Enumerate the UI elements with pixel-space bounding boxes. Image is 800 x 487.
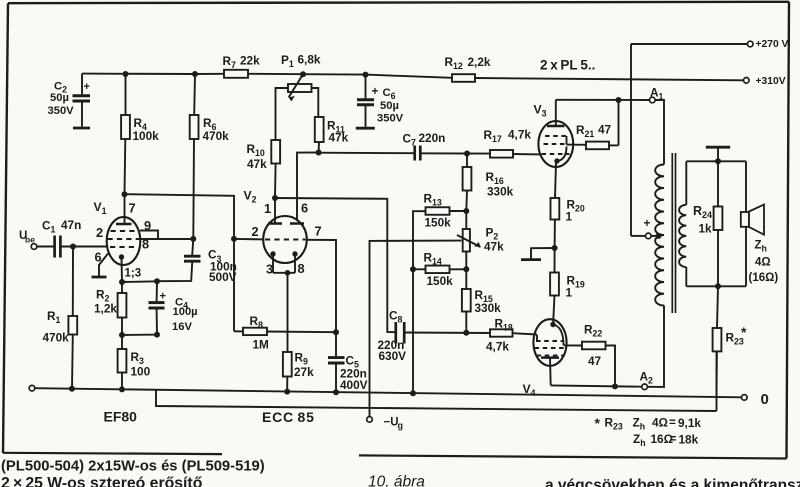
svg-text:+310V: +310V xyxy=(756,76,786,87)
svg-text:2: 2 xyxy=(252,224,259,239)
svg-text:=: = xyxy=(669,415,676,429)
svg-text:0: 0 xyxy=(761,391,769,408)
wire V1 pin9 xyxy=(140,231,158,240)
svg-text:*: * xyxy=(595,415,601,431)
terminal ground left xyxy=(29,385,35,391)
caption line1 xyxy=(1,459,265,475)
ground (R20/R19) xyxy=(521,248,555,260)
svg-text:330k: 330k xyxy=(487,185,514,199)
svg-text:+: + xyxy=(644,216,651,230)
speaker xyxy=(741,161,764,286)
junction V2 grid node xyxy=(231,236,237,242)
svg-text:8: 8 xyxy=(298,261,305,276)
ground (secondary) xyxy=(706,147,730,161)
resistor R20 xyxy=(551,198,560,248)
V4 grid1 jog xyxy=(536,335,538,341)
resistor R24 xyxy=(714,161,723,286)
wire divider column xyxy=(413,211,426,393)
caption line2 xyxy=(1,475,203,487)
ground rail junctions xyxy=(69,386,416,397)
label R1 xyxy=(43,309,70,345)
svg-text:(16Ω): (16Ω) xyxy=(749,272,779,284)
label V4 xyxy=(523,382,536,398)
svg-text:g: g xyxy=(398,421,404,431)
label R14 xyxy=(424,251,454,289)
label 2xPL5.. xyxy=(540,58,595,73)
svg-text:7: 7 xyxy=(315,224,322,239)
label C5 values xyxy=(340,354,368,393)
label R17 xyxy=(484,128,532,145)
label R11 xyxy=(327,119,349,145)
wire -Ug xyxy=(370,241,462,417)
label C1 47n xyxy=(42,218,81,235)
label R20 xyxy=(566,198,585,224)
capacitor C7 xyxy=(415,146,467,161)
resistor R7 xyxy=(224,70,248,78)
label R9 xyxy=(294,351,314,380)
junction pin7-R8-C5 xyxy=(333,329,339,335)
wire V2 grid xyxy=(234,238,263,241)
capacitor C6 xyxy=(357,72,379,127)
wire V3 anode to A1 xyxy=(556,97,650,103)
V3 screen jog xyxy=(566,136,568,145)
svg-text:47k: 47k xyxy=(247,157,267,171)
wire secondary bottom xyxy=(686,283,746,289)
svg-text:2,2k: 2,2k xyxy=(468,55,491,69)
svg-text:1;3: 1;3 xyxy=(125,268,142,280)
resistor R2 xyxy=(118,282,127,335)
label R21 xyxy=(576,123,612,140)
terminal A1 xyxy=(650,86,664,103)
svg-text:47k: 47k xyxy=(484,240,504,254)
transformer primary + tap xyxy=(631,216,662,239)
svg-text:100: 100 xyxy=(131,365,151,379)
wire cathode node xyxy=(119,278,160,285)
svg-text:4Ω: 4Ω xyxy=(652,416,668,430)
label R3 xyxy=(131,350,151,379)
svg-text:630V: 630V xyxy=(379,349,407,363)
wire to C7 xyxy=(319,152,415,155)
tube V2 envelope xyxy=(263,216,307,263)
resistor R10 xyxy=(271,140,280,198)
label R24 xyxy=(693,204,712,236)
label C4 values xyxy=(172,297,198,334)
ground (V1 pin6) xyxy=(92,276,107,279)
note R23 line1 xyxy=(595,415,702,432)
wire V1 pin8 screen xyxy=(140,238,193,240)
wire to V2 anode pin6 xyxy=(297,153,319,222)
junction screen node xyxy=(190,236,196,242)
svg-text:EF80: EF80 xyxy=(104,409,138,425)
potentiometer P1 xyxy=(276,71,319,140)
V3 anode xyxy=(547,100,565,126)
V3 grids xyxy=(542,136,570,154)
wire A2 to transformer xyxy=(647,306,664,387)
svg-text:2: 2 xyxy=(96,225,103,240)
label R18 xyxy=(486,317,513,354)
V4 anode xyxy=(541,358,559,386)
caption right text xyxy=(545,477,800,487)
wire V4 anode to A2 xyxy=(551,383,642,389)
resistor R16 xyxy=(463,154,472,212)
resistor R15 xyxy=(462,269,471,335)
junction R11-C7 xyxy=(316,150,322,156)
V1 pin labels xyxy=(95,201,152,280)
svg-text:150k: 150k xyxy=(425,216,452,230)
svg-text:350V: 350V xyxy=(377,112,404,124)
svg-text:7: 7 xyxy=(129,201,136,216)
tube V3 envelope xyxy=(538,121,573,167)
label Zh speaker xyxy=(749,240,779,285)
svg-text:1k: 1k xyxy=(699,222,713,236)
V1 anode xyxy=(116,194,132,224)
svg-text:4Ω: 4Ω xyxy=(755,257,771,269)
junction R13-R16-P2 xyxy=(463,208,469,214)
junction R2-R3-C4 xyxy=(119,332,125,338)
svg-text:150k: 150k xyxy=(427,274,454,288)
transformer primary winding xyxy=(655,165,664,310)
terminal Ube input xyxy=(19,230,37,249)
label R7 xyxy=(223,54,261,71)
svg-text:27k: 27k xyxy=(294,365,314,379)
V4 cathode xyxy=(550,322,563,346)
terminal +270V xyxy=(747,39,788,50)
label ECC85 xyxy=(262,409,315,425)
resistor R11 xyxy=(315,117,324,152)
wire ground rail xyxy=(35,388,742,397)
svg-text:1: 1 xyxy=(566,210,573,224)
V2 cathodes xyxy=(270,251,297,352)
label C6 values xyxy=(377,87,404,125)
svg-text:(PL500-504) 2x15W-os és (PL509: (PL500-504) 2x15W-os és (PL509-519) xyxy=(1,459,265,475)
label V1 xyxy=(94,200,107,216)
label R22 xyxy=(584,323,602,369)
resistor R3 xyxy=(118,335,127,389)
svg-text:47n: 47n xyxy=(61,218,81,232)
resistor R1 xyxy=(68,247,77,389)
label R13 xyxy=(424,192,452,230)
wire +270V xyxy=(631,44,748,236)
label P1 xyxy=(281,53,321,70)
capacitor C8 xyxy=(396,322,490,344)
svg-text:50µ: 50µ xyxy=(380,100,399,112)
capacitor C5 xyxy=(328,332,345,392)
wire V1 anode to V2 grid xyxy=(122,191,235,331)
svg-text:6: 6 xyxy=(95,250,102,265)
svg-text:500V: 500V xyxy=(209,270,237,284)
svg-text:400V: 400V xyxy=(340,378,368,392)
tube V1 envelope xyxy=(107,217,141,265)
wire +310V HT rail xyxy=(82,74,744,81)
label R2 xyxy=(94,288,117,316)
capacitor C1 xyxy=(37,236,107,258)
label EF80 xyxy=(104,409,138,425)
terminal A2 xyxy=(640,370,654,390)
svg-text:1: 1 xyxy=(264,201,271,216)
label C3 values xyxy=(208,248,237,284)
svg-text:2 × 25 W-os sztereó erősítő: 2 × 25 W-os sztereó erősítő xyxy=(1,475,203,487)
resistor R13 xyxy=(426,207,467,215)
svg-text:330k: 330k xyxy=(475,301,502,315)
terminal +310V xyxy=(744,76,786,87)
V2 anode1 xyxy=(268,198,282,224)
label R16 xyxy=(486,170,514,199)
svg-text:4,7k: 4,7k xyxy=(508,128,531,142)
svg-text:100µ: 100µ xyxy=(173,306,198,318)
label R12 xyxy=(445,55,491,71)
svg-text:10. ábra: 10. ábra xyxy=(368,474,425,487)
junction R20-R19-gnd xyxy=(552,245,558,251)
junction input node xyxy=(70,244,76,250)
label P2 xyxy=(484,226,504,254)
resistor R9 xyxy=(283,352,292,392)
svg-text:6,8k: 6,8k xyxy=(298,53,321,67)
label V2 xyxy=(244,189,257,205)
label R8 xyxy=(250,314,270,352)
junction C7-R16-R17 xyxy=(464,151,470,157)
svg-text:+: + xyxy=(84,81,90,93)
svg-text:16V: 16V xyxy=(172,321,192,333)
svg-text:1,2k: 1,2k xyxy=(94,302,117,316)
svg-text:+: + xyxy=(160,291,166,303)
label R6 xyxy=(203,116,230,143)
tube V4 envelope xyxy=(533,319,566,366)
resistor R18 xyxy=(490,329,537,336)
resistor R8 xyxy=(234,328,336,335)
V1 pin6 ground lead xyxy=(99,254,108,277)
svg-text:+270 V: +270 V xyxy=(756,39,789,50)
terminal 0 xyxy=(742,391,769,408)
wire 0V return rail xyxy=(156,351,717,411)
svg-text:22k: 22k xyxy=(240,54,260,68)
resistor R6 xyxy=(190,71,199,239)
V2 pin labels xyxy=(252,201,322,277)
svg-text:a végcsövekben és a kimenőtran: a végcsövekben és a kimenőtranszfor xyxy=(545,477,800,487)
junction V2 anode1 xyxy=(272,195,278,201)
note R23 line2 xyxy=(633,432,699,449)
V4 grids xyxy=(535,341,566,356)
svg-text:50µ: 50µ xyxy=(50,92,69,104)
caption 10. abra xyxy=(368,474,425,487)
svg-text:350V: 350V xyxy=(48,105,75,117)
label R10 xyxy=(247,142,268,171)
ground (C2) xyxy=(73,127,90,130)
V2 anode2 xyxy=(290,222,304,225)
wire V2 pin7 grid2 xyxy=(307,240,336,332)
svg-text:+: + xyxy=(372,84,379,98)
transformer secondary winding xyxy=(679,161,686,286)
svg-text:470k: 470k xyxy=(43,331,70,345)
svg-text:−U: −U xyxy=(384,417,399,429)
wire A1 to transformer xyxy=(655,100,664,165)
resistor R21 xyxy=(567,100,619,149)
label C2 values xyxy=(48,81,75,118)
label C7 220n xyxy=(403,131,446,148)
svg-text:47: 47 xyxy=(598,123,612,137)
svg-text:1: 1 xyxy=(566,286,573,300)
svg-text:=: = xyxy=(670,432,677,446)
wire V2 anode1 to C8 xyxy=(275,198,395,332)
terminal -Ug xyxy=(367,417,403,431)
wire secondary top xyxy=(686,158,746,164)
V1 grids xyxy=(108,231,140,247)
svg-text:be: be xyxy=(25,235,35,245)
label V3 xyxy=(534,103,547,119)
resistor R14 xyxy=(410,266,469,274)
svg-text:100k: 100k xyxy=(133,129,160,143)
svg-text:2 x PL 5..: 2 x PL 5.. xyxy=(540,58,595,73)
svg-text:47: 47 xyxy=(588,354,602,368)
capacitor C2 xyxy=(73,74,91,127)
transformer core xyxy=(672,153,675,313)
resistor R23 xyxy=(713,286,722,397)
svg-text:1M: 1M xyxy=(253,338,270,352)
label R19 xyxy=(566,274,585,300)
V2 grid (dashed) xyxy=(265,239,306,241)
resistor R22 xyxy=(564,342,615,387)
label C8 values xyxy=(378,309,407,364)
resistor R12 xyxy=(452,74,475,82)
svg-text:9,1k: 9,1k xyxy=(678,416,701,430)
svg-text:47k: 47k xyxy=(329,130,349,144)
label R23 xyxy=(726,324,748,347)
svg-text:18k: 18k xyxy=(679,433,699,447)
capacitor C4 xyxy=(122,281,166,337)
label R4 xyxy=(133,116,160,143)
V1 cathode xyxy=(119,254,124,282)
resistor R17 xyxy=(467,150,541,158)
svg-text:ECC 85: ECC 85 xyxy=(262,409,315,425)
resistor R19 xyxy=(550,248,559,324)
V3 cathode xyxy=(554,147,566,199)
svg-text:470k: 470k xyxy=(203,129,230,143)
svg-text:4,7k: 4,7k xyxy=(486,340,509,354)
svg-text:6: 6 xyxy=(301,201,308,216)
label R15 xyxy=(475,288,502,315)
capacitor C3 xyxy=(157,239,201,281)
svg-text:220n: 220n xyxy=(419,131,446,145)
svg-text:*: * xyxy=(741,324,747,340)
ground (C6) xyxy=(356,127,375,130)
potentiometer P2 xyxy=(457,211,481,269)
svg-text:3: 3 xyxy=(266,262,273,277)
resistor R4 xyxy=(121,71,130,194)
